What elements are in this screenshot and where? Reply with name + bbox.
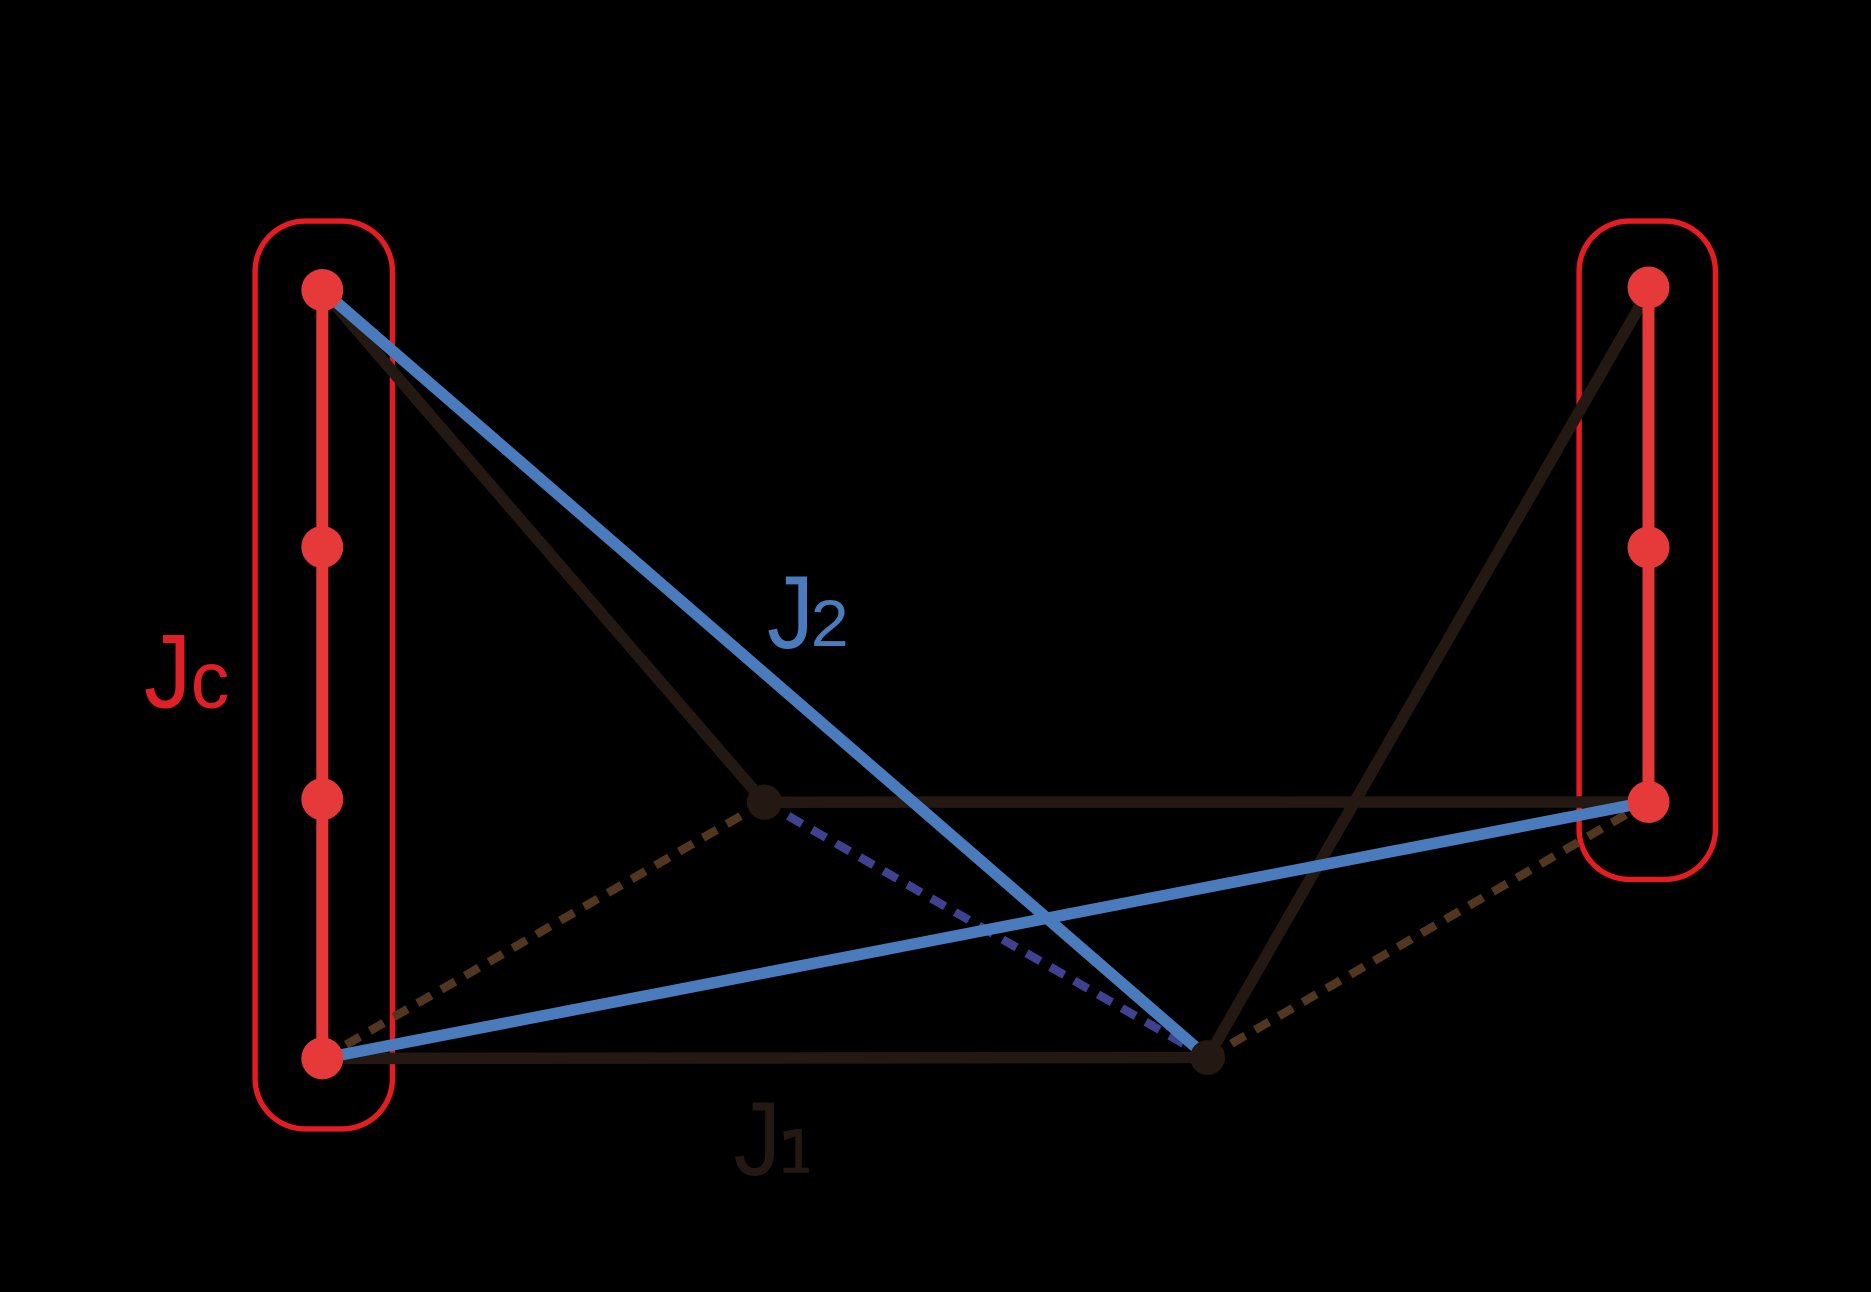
dashed bond D2 (navy, black site 1 to black site 2) bbox=[764, 802, 1207, 1057]
dashed bond D1 (brown, bottom-left red site to black site 1) bbox=[322, 802, 764, 1058]
red site L2 bbox=[301, 526, 343, 568]
red site R2 bbox=[1628, 527, 1670, 569]
dashed bond D3 (brown, black site 2 to right-bottom red site) bbox=[1208, 802, 1648, 1058]
red site R3 (bottom-right) bbox=[1628, 781, 1670, 823]
black site 1 bbox=[747, 785, 782, 820]
black site 2 bbox=[1190, 1040, 1225, 1075]
figure background bbox=[145, 218, 1718, 1174]
blue bond B1 = J2 (top-left red site to black site 2) bbox=[322, 290, 1207, 1058]
svg-text:J: J bbox=[767, 554, 814, 670]
red site L3 bbox=[301, 778, 343, 820]
dark bond L4 (black site 2 to top-right red site) bbox=[1208, 288, 1651, 1058]
red site L4 (bottom-left) bbox=[301, 1037, 343, 1079]
svg-text:2: 2 bbox=[811, 586, 849, 660]
blue bond B2 (bottom-left red site to right-bottom red site) bbox=[322, 802, 1647, 1059]
red site L1 (top-left) bbox=[301, 269, 343, 311]
dark bond L3 = J1 (bottom-left red site to black site 2) bbox=[322, 1058, 1207, 1059]
dark bond L1 (top-left red site to black site 1) bbox=[322, 290, 764, 802]
svg-text:c: c bbox=[191, 636, 230, 726]
svg-text:J: J bbox=[734, 1081, 782, 1198]
dark bond L2 (black site 1 to right-bottom red site) bbox=[764, 796, 1647, 808]
right Jc pill outline bbox=[1579, 221, 1715, 879]
svg-text:J: J bbox=[144, 614, 192, 731]
red site R1 (top-right) bbox=[1628, 267, 1670, 309]
right red rung line bbox=[1643, 288, 1655, 803]
label J1 : subscript 1 (drawn path, serif-style one) bbox=[783, 1129, 808, 1173]
left Jc pill outline bbox=[255, 221, 392, 1129]
left red rung line bbox=[316, 290, 328, 1058]
